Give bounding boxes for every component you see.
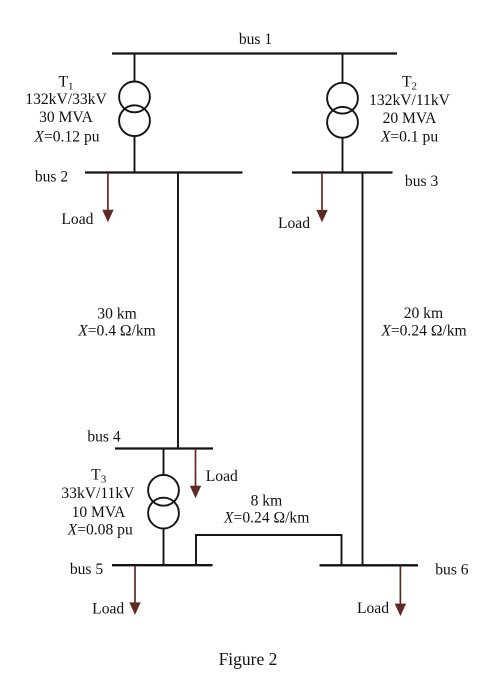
wire T3 to bus 5 <box>163 529 165 566</box>
bus 6 <box>320 564 419 566</box>
svg-text:20 MVA: 20 MVA <box>383 110 438 127</box>
svg-text:X=0.12 pu: X=0.12 pu <box>33 128 99 145</box>
transformer T2 <box>327 83 358 114</box>
wire T2 to bus 3 <box>342 138 344 173</box>
load arrow at bus 2 <box>102 173 113 222</box>
load arrow at bus 3 <box>316 173 327 222</box>
svg-text:Load: Load <box>92 601 124 618</box>
svg-text:132kV/33kV: 132kV/33kV <box>25 91 107 108</box>
svg-text:10 MVA: 10 MVA <box>72 504 127 521</box>
svg-text:bus 3: bus 3 <box>405 173 439 190</box>
svg-text:bus 4: bus 4 <box>87 428 121 445</box>
wire T1 to bus 2 <box>134 136 136 172</box>
bus 3 <box>292 171 393 173</box>
svg-text:X=0.1 pu: X=0.1 pu <box>380 128 439 145</box>
svg-text:30 km: 30 km <box>97 306 136 323</box>
svg-text:bus 2: bus 2 <box>35 168 68 185</box>
svg-text:bus 1: bus 1 <box>239 31 272 48</box>
svg-text:bus 5: bus 5 <box>70 561 104 578</box>
bus 5 <box>112 564 213 566</box>
svg-text:Load: Load <box>206 468 238 485</box>
svg-text:T1: T1 <box>58 74 73 93</box>
svg-text:Figure 2: Figure 2 <box>219 649 278 669</box>
svg-text:Load: Load <box>278 215 310 232</box>
svg-text:30 MVA: 30 MVA <box>39 109 94 126</box>
svg-text:20 km: 20 km <box>404 305 443 322</box>
bus 4 <box>115 447 213 449</box>
svg-text:Load: Load <box>357 600 389 617</box>
load arrow at bus 5 <box>129 566 140 615</box>
svg-text:T3: T3 <box>91 467 107 486</box>
wire bus1 to T1 <box>134 54 136 83</box>
wire line bus2-bus4 30 km <box>177 173 179 449</box>
svg-text:33kV/11kV: 33kV/11kV <box>61 485 135 502</box>
load arrow at bus 4 <box>190 449 201 498</box>
bus 2 <box>85 171 243 173</box>
wire bus4 to T3 <box>163 449 165 476</box>
svg-text:132kV/11kV: 132kV/11kV <box>369 92 451 109</box>
wire line bus5-bus6 8 km <box>196 535 342 565</box>
wire bus1 to T2 <box>342 54 344 83</box>
wire line bus3-bus6 20 km <box>362 173 364 566</box>
bus 1 <box>112 52 397 54</box>
svg-text:bus 6: bus 6 <box>435 561 469 578</box>
svg-text:X=0.4 Ω/km: X=0.4 Ω/km <box>77 323 156 340</box>
svg-text:X=0.24 Ω/km: X=0.24 Ω/km <box>223 510 309 527</box>
svg-text:Load: Load <box>61 211 93 228</box>
svg-text:T2: T2 <box>402 74 417 93</box>
transformer T3 <box>148 475 179 506</box>
svg-text:8 km: 8 km <box>251 493 283 510</box>
svg-text:X=0.24 Ω/km: X=0.24 Ω/km <box>380 322 466 339</box>
transformer T1 <box>119 82 150 113</box>
svg-text:X=0.08 pu: X=0.08 pu <box>67 522 133 539</box>
load arrow at bus 6 <box>395 566 406 616</box>
